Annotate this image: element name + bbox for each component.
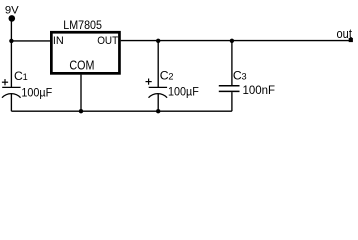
wire bottom ground rail bbox=[11, 110, 232, 112]
svg-text:C3: C3 bbox=[233, 69, 247, 83]
svg-text:COM: COM bbox=[69, 58, 94, 72]
wire C3 top lead bbox=[231, 41, 233, 86]
svg-text:IN: IN bbox=[53, 35, 64, 47]
node output junction at C3 bbox=[230, 39, 234, 43]
capacitor C3 (ceramic) bbox=[219, 86, 240, 92]
svg-text:OUT: OUT bbox=[97, 35, 118, 47]
power terminal 9V (filled dot) bbox=[9, 15, 16, 22]
svg-text:out: out bbox=[337, 26, 353, 41]
node ground junction at COM bbox=[79, 109, 83, 113]
wire C2 top lead bbox=[157, 41, 159, 88]
capacitor C1 (polarized electrolytic) bbox=[2, 79, 21, 98]
svg-text:C1: C1 bbox=[14, 69, 28, 83]
wire 9V terminal down to input node bbox=[10, 18, 12, 40]
node ground junction at C2 bbox=[156, 109, 160, 113]
wire COM pin down to ground rail bbox=[80, 75, 82, 112]
wire input node to IN pin of U1 bbox=[11, 40, 50, 42]
node input junction bbox=[9, 39, 13, 43]
capacitor C2 (polarized electrolytic) bbox=[146, 79, 168, 98]
wire C1 bottom lead bbox=[10, 94, 12, 112]
wire C3 bottom lead bbox=[231, 92, 233, 111]
svg-text:9V: 9V bbox=[5, 4, 19, 16]
wire C2 bottom lead bbox=[157, 94, 159, 112]
svg-text:100nF: 100nF bbox=[243, 83, 276, 97]
regulator U1 LM7805 body bbox=[51, 32, 119, 73]
svg-text:100µF: 100µF bbox=[21, 86, 52, 100]
terminal out (square pad) bbox=[349, 38, 353, 42]
wire OUT pin rail to output terminal bbox=[121, 40, 350, 42]
node output junction at C2 bbox=[156, 39, 160, 43]
svg-text:C2: C2 bbox=[160, 68, 174, 82]
wire C1 top lead bbox=[10, 41, 12, 88]
svg-text:100µF: 100µF bbox=[168, 85, 199, 99]
svg-text:LM7805: LM7805 bbox=[63, 18, 102, 32]
